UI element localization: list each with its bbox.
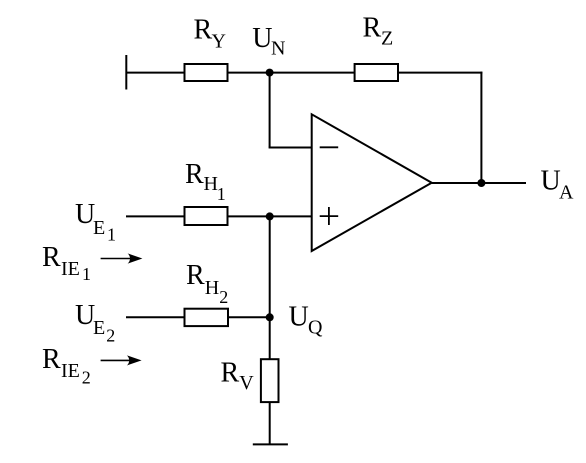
node UQ junction dot bbox=[266, 313, 274, 321]
label RV bbox=[221, 358, 255, 395]
svg-text:Q: Q bbox=[308, 317, 323, 339]
svg-text:1: 1 bbox=[82, 264, 91, 284]
label RY bbox=[194, 15, 226, 53]
svg-text:R: R bbox=[363, 13, 382, 44]
svg-text:IE: IE bbox=[61, 258, 80, 280]
wire: node N1 down to node UQ bbox=[269, 216, 271, 317]
wire: output node to UA bbox=[481, 182, 526, 184]
svg-text:2: 2 bbox=[82, 368, 91, 388]
wire: node UN to RZ bbox=[270, 72, 355, 74]
wire: RH2 to node UQ bbox=[228, 316, 270, 318]
label RH1 bbox=[185, 159, 226, 204]
svg-text:2: 2 bbox=[106, 325, 115, 345]
resistor RV bbox=[261, 359, 279, 402]
resistor RY bbox=[185, 64, 228, 81]
wire: node UN down to inverting level bbox=[269, 73, 271, 148]
wire: node UQ down to RV bbox=[269, 317, 271, 359]
label UN bbox=[252, 23, 285, 60]
wire: RY to node UN bbox=[228, 72, 270, 74]
svg-text:1: 1 bbox=[217, 184, 226, 204]
svg-text:A: A bbox=[559, 182, 574, 204]
terminal bar (left reference terminal) bbox=[125, 55, 127, 90]
svg-text:IE: IE bbox=[61, 360, 80, 382]
svg-text:U: U bbox=[289, 302, 309, 333]
label RIE1 bbox=[42, 242, 91, 284]
svg-text:R: R bbox=[42, 242, 61, 273]
label UE1 bbox=[75, 199, 116, 245]
resistor RH1 bbox=[185, 207, 228, 225]
svg-text:E: E bbox=[93, 217, 105, 239]
svg-text:Z: Z bbox=[381, 28, 393, 50]
label RH2 bbox=[186, 260, 228, 307]
wire: RH1 to node N1 bbox=[228, 215, 270, 217]
svg-text:R: R bbox=[221, 358, 240, 389]
svg-text:H: H bbox=[204, 173, 218, 195]
op-amp plus sign bbox=[320, 207, 339, 225]
wire: node N1 to non-inverting input bbox=[270, 215, 312, 217]
svg-text:R: R bbox=[186, 260, 205, 291]
ground bbox=[253, 443, 288, 445]
arrow RIE2 direction bbox=[101, 355, 142, 365]
svg-text:R: R bbox=[42, 344, 61, 375]
op-amp U1 triangle bbox=[312, 114, 432, 251]
wire: UE1 to RH1 bbox=[126, 215, 185, 217]
node N1 junction dot bbox=[266, 212, 274, 220]
svg-text:U: U bbox=[541, 166, 561, 197]
node UN junction dot bbox=[266, 69, 274, 77]
wire: right vertical feedback drop bbox=[480, 72, 482, 183]
output node junction dot bbox=[477, 179, 485, 187]
svg-text:Y: Y bbox=[212, 31, 226, 53]
label RIE2 bbox=[42, 344, 91, 388]
wire: RZ to top-right corner bbox=[398, 72, 482, 74]
wire: UE2 to RH2 bbox=[126, 316, 185, 318]
svg-text:R: R bbox=[194, 15, 213, 46]
label RZ bbox=[363, 13, 394, 50]
svg-text:U: U bbox=[252, 23, 272, 54]
op-amp minus sign bbox=[320, 146, 339, 148]
svg-text:R: R bbox=[185, 159, 204, 190]
label UQ bbox=[289, 302, 324, 339]
svg-text:2: 2 bbox=[219, 287, 228, 307]
wire: to inverting input bbox=[269, 147, 312, 149]
svg-text:1: 1 bbox=[107, 225, 116, 245]
wire: op-amp output to node bbox=[432, 182, 482, 184]
svg-text:E: E bbox=[93, 317, 105, 339]
wire: terminal to RY bbox=[126, 72, 185, 74]
svg-text:V: V bbox=[239, 372, 254, 394]
resistor RH2 bbox=[185, 309, 229, 326]
resistor RZ bbox=[355, 64, 398, 81]
label UE2 bbox=[75, 300, 115, 345]
label UA bbox=[541, 166, 575, 204]
svg-text:H: H bbox=[205, 277, 219, 299]
svg-text:N: N bbox=[271, 38, 285, 60]
arrow RIE1 direction bbox=[101, 253, 143, 263]
wire: RV to ground bbox=[269, 402, 271, 444]
